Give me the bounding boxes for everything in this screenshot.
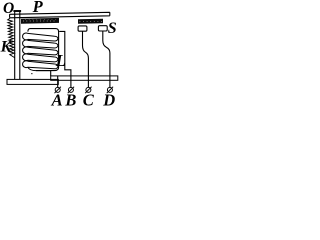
contact pad bar S (dark, under lever right)	[78, 19, 103, 24]
coil turn 1	[23, 33, 58, 41]
base slab left (under post and coil)	[7, 79, 58, 84]
svg-text:C: C	[83, 91, 95, 107]
svg-text:L: L	[55, 51, 66, 70]
terminal A (binding post)	[55, 87, 60, 92]
wire from coil right lead to terminal B	[59, 31, 71, 87]
coil bottom closing line	[28, 67, 51, 70]
coil L top cap and right envelope	[28, 29, 59, 71]
coil turn 3	[23, 47, 58, 55]
spring K (zigzag from lever end to post)	[8, 18, 15, 57]
terminal C	[86, 87, 91, 92]
svg-text:S: S	[108, 20, 117, 37]
svg-text:P: P	[32, 0, 44, 16]
contact post (left square)	[78, 26, 87, 31]
base bar right (thin board, x 50.7-117.8)	[51, 76, 118, 80]
post (pivot support)	[15, 11, 20, 80]
coil turn 5	[23, 61, 58, 69]
svg-text:D: D	[102, 91, 115, 107]
scan noise dot	[31, 73, 33, 74]
svg-text:B: B	[64, 91, 76, 107]
svg-text:A: A	[51, 91, 63, 107]
coil turn 4	[23, 54, 58, 62]
post top cap	[13, 10, 21, 12]
coil turn 2	[23, 40, 58, 48]
svg-text:K: K	[0, 38, 13, 55]
lever P (armature arm, double line slightly slanted)	[10, 12, 110, 17]
wire from coil lead to terminal A	[57, 76, 59, 87]
coil lead step to base bar (node near A)	[50, 71, 52, 76]
terminal D	[107, 87, 112, 92]
armature iron bar (dark, above coil)	[21, 18, 59, 24]
wire from right contact to terminal D	[103, 31, 110, 87]
terminal B	[68, 87, 73, 92]
wire from left contact to terminal C	[83, 31, 89, 87]
contact post (right square)	[98, 26, 107, 31]
